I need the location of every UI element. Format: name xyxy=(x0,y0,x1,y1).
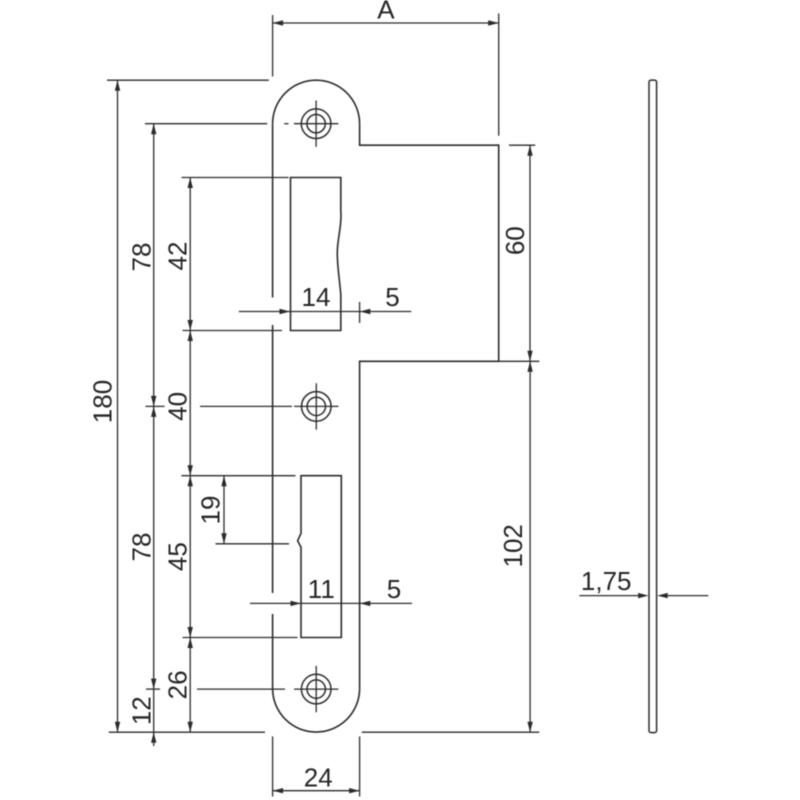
svg-text:A: A xyxy=(377,0,395,25)
svg-text:26: 26 xyxy=(163,670,193,699)
plate outline xyxy=(273,80,499,732)
dimension 12 xyxy=(146,689,160,746)
dimension A xyxy=(273,14,499,136)
dimension 78 bottom xyxy=(145,406,164,689)
svg-text:180: 180 xyxy=(88,380,118,423)
extension lines hole H2 xyxy=(200,405,292,407)
dimension 26 xyxy=(188,638,193,733)
dimension 180 xyxy=(107,80,269,732)
dimension 45 xyxy=(181,476,297,638)
dimension 40 xyxy=(188,331,193,476)
extension lines hole H3 xyxy=(197,688,285,690)
side view plate (thickness view) xyxy=(649,80,657,733)
screw hole H2 xyxy=(294,383,338,429)
svg-text:11: 11 xyxy=(308,574,335,604)
svg-text:1,75: 1,75 xyxy=(581,566,632,596)
svg-text:19: 19 xyxy=(196,496,226,525)
cutout top (latch opening) xyxy=(291,178,342,331)
dimension 24 xyxy=(273,736,360,796)
dimension 78 top xyxy=(145,124,267,407)
dimension 102 xyxy=(362,361,540,732)
svg-text:78: 78 xyxy=(127,243,157,272)
svg-text:14: 14 xyxy=(302,282,331,312)
dimension 14 and 5 top xyxy=(239,302,411,323)
dimension 1,75 xyxy=(579,593,708,598)
screw hole H1 xyxy=(294,101,338,147)
svg-text:12: 12 xyxy=(127,696,157,725)
screw hole H3 xyxy=(294,666,338,712)
extension line hole H1 xyxy=(284,123,288,125)
dimension 11 and 5 bottom xyxy=(250,601,412,606)
svg-text:102: 102 xyxy=(498,524,528,567)
svg-text:45: 45 xyxy=(163,542,193,571)
svg-text:60: 60 xyxy=(500,226,530,255)
svg-text:42: 42 xyxy=(163,242,193,271)
svg-text:5: 5 xyxy=(387,574,401,604)
svg-text:24: 24 xyxy=(304,763,333,793)
dimension 42 xyxy=(182,178,289,331)
svg-text:5: 5 xyxy=(385,282,399,312)
dimension 60 xyxy=(499,145,539,361)
svg-text:40: 40 xyxy=(163,392,193,421)
cutout bottom (deadbolt opening) xyxy=(298,476,342,638)
dimension 19 xyxy=(216,476,290,544)
svg-text:78: 78 xyxy=(127,533,157,562)
